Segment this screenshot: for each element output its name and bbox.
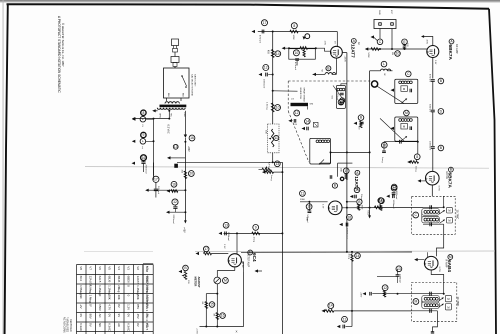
filter cap C16a xyxy=(171,181,177,187)
svg-text:0V: 0V xyxy=(108,314,112,318)
svg-text:8: 8 xyxy=(142,111,144,115)
cal box leads to transformer xyxy=(166,98,168,101)
tube label 12AT7 first xyxy=(351,39,356,44)
svg-text:PIN 2: PIN 2 xyxy=(145,295,149,303)
svg-text:2.1V: 2.1V xyxy=(223,244,225,249)
plate lead to bus x347 xyxy=(342,52,347,54)
RF tuned coil box 2 xyxy=(395,117,418,141)
svg-text:12AT7: 12AT7 xyxy=(350,44,355,58)
svg-text:13: 13 xyxy=(224,223,228,227)
triode V2b 12AT7 xyxy=(328,201,342,215)
IF2 bottom exit hook xyxy=(433,311,438,332)
resistor 3000 below xyxy=(360,121,362,128)
svg-text:0.75V: 0.75V xyxy=(438,186,440,192)
cathode bus divider x272.7 xyxy=(272,32,274,125)
antenna terminal strip xyxy=(374,20,396,29)
svg-text:0.75V: 0.75V xyxy=(438,267,440,273)
bottom resistor cluster 14 xyxy=(328,303,334,309)
tube voltage chart xyxy=(76,265,78,334)
svg-text:+: + xyxy=(142,117,144,121)
elbow down to tube grid xyxy=(336,32,338,47)
crease line upper xyxy=(85,167,489,169)
cap 470mmf below box xyxy=(295,58,299,60)
svg-text:GATE CONT.: GATE CONT. xyxy=(194,74,197,87)
wire crease level y252 xyxy=(241,251,412,253)
resistor 15K right xyxy=(378,198,384,204)
svg-text:13: 13 xyxy=(174,145,178,149)
svg-text:8: 8 xyxy=(416,155,418,159)
svg-text:12: 12 xyxy=(173,200,177,204)
svg-text:-2V: -2V xyxy=(79,304,83,309)
meter leads xyxy=(216,271,218,278)
svg-text:SPRAY SHIELD: SPRAY SHIELD xyxy=(303,88,306,103)
svg-text:0V: 0V xyxy=(127,314,131,318)
plate bus junction xyxy=(346,201,348,203)
svg-text:GND: GND xyxy=(378,10,380,15)
svg-text:+85V: +85V xyxy=(187,146,190,152)
grid wire second triode xyxy=(300,201,328,203)
svg-text:10.7MC: 10.7MC xyxy=(456,297,460,307)
svg-text:6.3AC: 6.3AC xyxy=(127,323,131,331)
svg-text:50K: 50K xyxy=(265,130,267,134)
IF2 top wire with cap xyxy=(412,293,444,295)
svg-text:2.2V: 2.2V xyxy=(322,204,324,209)
IF transformer 10.7MC dashed box 2 xyxy=(412,282,457,321)
svg-text:M: M xyxy=(448,209,450,213)
svg-text:0V: 0V xyxy=(79,314,83,318)
cap 50mmf with arrow xyxy=(354,187,360,193)
svg-text:12: 12 xyxy=(383,286,387,290)
svg-text:16: 16 xyxy=(347,215,351,219)
svg-text:+40V: +40V xyxy=(360,292,362,298)
border frame left xyxy=(5,4,8,334)
svg-text:2000mmf: 2000mmf xyxy=(172,215,174,225)
circle B left xyxy=(332,183,337,188)
IF1 primary coil xyxy=(422,209,440,216)
IF2 trimmer boxes xyxy=(445,295,451,301)
circle 20 1meg xyxy=(381,142,387,148)
IF1 slug arrows xyxy=(440,210,445,214)
svg-text:9: 9 xyxy=(142,133,144,137)
svg-text:V8: V8 xyxy=(79,266,83,270)
svg-text:10: 10 xyxy=(295,51,299,55)
svg-text:1000mmf: 1000mmf xyxy=(428,141,430,151)
svg-text:1meg: 1meg xyxy=(253,237,255,243)
svg-text:6.3AC: 6.3AC xyxy=(79,323,83,331)
svg-text:8: 8 xyxy=(293,24,295,28)
gang diagonal small osc xyxy=(333,86,345,103)
gang diagonal to RF coil 2 xyxy=(380,118,404,141)
svg-text:11: 11 xyxy=(274,136,278,140)
svg-text:470mmf: 470mmf xyxy=(294,62,296,70)
svg-text:METER AMP: METER AMP xyxy=(247,253,250,267)
svg-text:SYM: SYM xyxy=(145,266,149,273)
mechanical gang dash line xyxy=(288,80,371,82)
meter grid wire y233.4 xyxy=(224,232,283,234)
input circle C xyxy=(377,39,383,45)
crystal box xyxy=(313,122,318,127)
svg-text:LG: LG xyxy=(291,99,294,101)
grid resistor R8 xyxy=(291,23,297,29)
mixer bus x369.6 xyxy=(369,71,371,216)
svg-text:IF AMP: IF AMP xyxy=(444,259,448,268)
svg-text:6BE6: 6BE6 xyxy=(127,276,131,283)
stray ground arrow near 6C4 plate xyxy=(256,270,259,272)
terminal leads xyxy=(379,29,381,39)
cap C12 on bus lower xyxy=(172,199,178,205)
svg-text:18K: 18K xyxy=(306,217,308,221)
svg-text:6.3 VAC: 6.3 VAC xyxy=(166,125,169,134)
svg-text:20K: 20K xyxy=(117,295,121,300)
RF amp tube V1 6BK7A xyxy=(427,46,439,58)
svg-text:1 Meg: 1 Meg xyxy=(89,285,93,293)
bottom return wire xyxy=(200,326,244,328)
resistor 3meg to ground xyxy=(417,142,419,154)
svg-text:M: M xyxy=(405,111,408,115)
svg-text:+: + xyxy=(142,139,144,143)
IF2 secondary coil xyxy=(422,302,440,308)
capacitor C16 heater bypass xyxy=(141,155,147,161)
receiver tube V1b 6BK7A xyxy=(426,171,440,185)
filter cap C17 xyxy=(153,163,155,176)
IF1 coil link xyxy=(421,212,423,220)
wire y163 right of osc xyxy=(338,162,353,164)
svg-text:500mmf: 500mmf xyxy=(428,104,430,112)
circle 11 3300 xyxy=(300,191,306,197)
rcvr tube label xyxy=(449,167,454,172)
gang diagonal to RF coil 1 xyxy=(377,86,404,103)
crease line lower xyxy=(195,250,495,253)
IF2 circle M xyxy=(413,299,419,305)
bypass cap C12 divider xyxy=(263,65,269,71)
svg-text:20K: 20K xyxy=(108,295,112,300)
cap 2000mmf C13 xyxy=(396,266,402,272)
svg-text:2000mmf: 2000mmf xyxy=(263,79,265,89)
svg-text:M: M xyxy=(448,219,450,223)
svg-text:1meg: 1meg xyxy=(381,157,383,163)
rectifier diode on B+ lead xyxy=(184,111,186,135)
pilot lamp circle pair 2 xyxy=(141,132,146,137)
svg-text:TUBE: TUBE xyxy=(145,275,149,283)
svg-text:15: 15 xyxy=(210,303,214,307)
svg-text:20: 20 xyxy=(189,172,193,176)
heater bus vertical xyxy=(153,119,155,180)
resistor 3meg on x352 xyxy=(351,254,353,261)
svg-text:17: 17 xyxy=(204,247,208,251)
left margin scan line xyxy=(2,0,5,334)
cathode choke xyxy=(326,66,331,71)
meter M1 xyxy=(214,277,221,284)
circle 10 on grid wire xyxy=(395,51,401,57)
resistor 45K on divider xyxy=(271,50,274,58)
svg-text:V3: V3 xyxy=(127,266,131,270)
meter branch wire xyxy=(206,293,217,295)
svg-text:6.3AC: 6.3AC xyxy=(108,323,112,331)
wire y162.3 horizontal xyxy=(177,161,282,163)
svg-text:14: 14 xyxy=(329,304,333,308)
spray shield bar xyxy=(291,103,309,106)
svg-text:A PHOTOFACT STANDARD NOTATION: A PHOTOFACT STANDARD NOTATION SCHEMATIC xyxy=(57,16,61,93)
svg-text:RCVR: RCVR xyxy=(445,172,449,179)
svg-text:9: 9 xyxy=(255,226,257,230)
wire y91 to shield xyxy=(273,90,298,92)
svg-text:5000mmf: 5000mmf xyxy=(392,200,394,209)
svg-text:16: 16 xyxy=(190,136,194,140)
cap C16 below tube xyxy=(346,214,352,220)
B+ arrow +90V xyxy=(368,215,371,218)
main wire y152.4 horizontal xyxy=(331,151,370,153)
svg-text:20: 20 xyxy=(382,143,386,147)
svg-text:14: 14 xyxy=(305,119,309,123)
osc box right lead down xyxy=(330,152,332,163)
svg-text:BLK: BLK xyxy=(167,93,169,98)
svg-text:9V: 9V xyxy=(117,314,121,318)
rcvr cathode to IF box xyxy=(431,185,433,196)
svg-text:13: 13 xyxy=(275,162,279,166)
svg-text:GRN: GRN xyxy=(159,113,161,118)
svg-text:M: M xyxy=(414,300,417,304)
power transformer T1 secondary xyxy=(157,108,185,110)
svg-text:17: 17 xyxy=(344,169,348,173)
svg-text:12: 12 xyxy=(295,111,299,115)
svg-text:M: M xyxy=(447,297,449,301)
page top scan edge xyxy=(0,0,500,2)
circle M above box2 xyxy=(404,110,410,116)
oscillator coil big box xyxy=(310,138,331,164)
cathode resistor 1000 xyxy=(357,199,362,204)
svg-text:470mmf: 470mmf xyxy=(259,35,261,43)
IF2 coil link xyxy=(421,299,423,305)
wire to bus from C17 xyxy=(148,189,185,191)
svg-text:16: 16 xyxy=(142,156,146,160)
cap 5000mmf left xyxy=(391,185,397,191)
test arrow near R8 xyxy=(303,36,306,39)
svg-text:150mmf: 150mmf xyxy=(336,93,338,101)
grid box with R10 xyxy=(284,47,289,49)
svg-text:6BK7A: 6BK7A xyxy=(448,45,453,61)
svg-text:0V: 0V xyxy=(117,304,121,308)
6C4 label xyxy=(248,250,253,255)
svg-text:M: M xyxy=(449,255,452,259)
mixer circle 13 with cap xyxy=(338,99,344,105)
input cap C17a xyxy=(262,20,268,26)
riser to 6C4 plate xyxy=(243,272,245,327)
svg-text:14: 14 xyxy=(356,254,360,258)
svg-text:4.5V: 4.5V xyxy=(426,40,428,45)
svg-text:11: 11 xyxy=(392,186,396,190)
svg-text:L: L xyxy=(383,62,385,66)
svg-text:V5: V5 xyxy=(108,266,112,270)
gang rotor bold circle xyxy=(372,81,378,87)
wire y141.7 with cap xyxy=(384,141,418,143)
AFC pot below xyxy=(272,153,274,163)
svg-text:3meg: 3meg xyxy=(347,254,349,260)
6AB4 plate lead down xyxy=(431,270,444,282)
svg-text:470mmf: 470mmf xyxy=(428,74,430,82)
bottom cap cluster 11 xyxy=(342,316,348,322)
svg-text:RF AMP: RF AMP xyxy=(455,44,459,54)
grid resistor RE xyxy=(402,39,408,45)
svg-text:2.8V: 2.8V xyxy=(434,60,436,65)
IF1 trimmer boxes xyxy=(447,207,453,213)
svg-text:0V: 0V xyxy=(136,323,140,327)
IF1 bottom wire with cap xyxy=(423,223,444,225)
meter adjust pot xyxy=(183,265,189,271)
6C4 left resistor xyxy=(203,246,209,252)
svg-text:1.3meg: 1.3meg xyxy=(266,102,268,110)
grid return resistor 1meg y172 xyxy=(263,171,265,173)
IF2 primary coil xyxy=(422,296,440,302)
coupling caps chain on x433 bus xyxy=(431,79,435,81)
svg-text:X: X xyxy=(236,330,238,334)
svg-text:INSIDE FOIL: INSIDE FOIL xyxy=(299,88,301,101)
border frame top xyxy=(7,4,490,9)
power transformer T1 primary xyxy=(165,102,179,104)
bold junction near label xyxy=(340,177,343,180)
bus x352 lower xyxy=(351,259,353,327)
wire y212.2 to bus xyxy=(167,211,169,213)
cap 1000mmf xyxy=(391,184,397,190)
pilot lamp circle pair 1 xyxy=(141,110,146,115)
svg-text:150V: 150V xyxy=(98,304,102,311)
svg-text:PIN 1: PIN 1 xyxy=(145,285,149,293)
power transformer T1 core xyxy=(160,105,187,108)
circle C above box1 xyxy=(406,71,412,77)
long bus x282.4 xyxy=(281,162,283,334)
svg-text:+1.5V: +1.5V xyxy=(241,262,243,268)
svg-text:1.2V: 1.2V xyxy=(127,304,131,310)
cap below spray bar xyxy=(306,106,308,109)
svg-text:45V: 45V xyxy=(136,314,140,319)
plate coil L with circle xyxy=(381,61,387,67)
svg-text:12: 12 xyxy=(264,66,268,70)
svg-text:10: 10 xyxy=(396,52,400,56)
grid cap 50mmf top xyxy=(343,168,349,174)
wire grid line y31.5 xyxy=(258,31,338,33)
svg-text:NC NO CONN.: NC NO CONN. xyxy=(63,317,66,333)
svg-text:11: 11 xyxy=(343,317,347,321)
B+ bus end arrow +45V xyxy=(184,220,187,223)
main wire y207.5 to IF xyxy=(342,207,423,209)
RF tube label 6BK7A RF AMP xyxy=(449,39,454,44)
wire y276 xyxy=(377,275,398,277)
border frame right xyxy=(489,9,496,334)
volume pot dashed box xyxy=(268,124,280,153)
svg-text:2000mmf: 2000mmf xyxy=(399,274,401,283)
svg-text:13: 13 xyxy=(339,100,343,104)
svg-text:2000mmf: 2000mmf xyxy=(144,165,146,175)
svg-text:45K: 45K xyxy=(266,50,268,55)
gang vertical dash xyxy=(287,81,289,111)
6AB4 label xyxy=(448,255,453,260)
svg-text:+45V: +45V xyxy=(182,227,185,233)
resistor 6K xyxy=(205,302,207,309)
svg-text:1meg: 1meg xyxy=(270,175,272,181)
svg-text:6AL5: 6AL5 xyxy=(98,276,102,283)
resistor 9K xyxy=(216,313,218,320)
dark connector blob xyxy=(174,164,178,168)
RF cathode lead down xyxy=(432,58,434,79)
IF2 slug arrows xyxy=(439,298,444,302)
svg-text:AC: AC xyxy=(98,314,102,318)
svg-text:V6: V6 xyxy=(98,266,102,270)
svg-text:3300: 3300 xyxy=(300,199,306,201)
cal-oscillator box xyxy=(174,67,176,69)
arrow wire y157.9 xyxy=(168,157,171,159)
6C4 grid lead xyxy=(236,233,238,254)
B+ bus x346.9 xyxy=(346,53,348,252)
IF1 circle C xyxy=(413,212,419,218)
svg-text:80V: 80V xyxy=(89,314,93,319)
svg-text:METER: METER xyxy=(193,277,197,287)
svg-text:3meg: 3meg xyxy=(415,166,417,172)
svg-text:* MEASURED: * MEASURED xyxy=(66,317,69,332)
triode V2a 12AT7 xyxy=(331,46,343,58)
svg-text:1M: 1M xyxy=(391,52,393,55)
svg-text:PIN 4: PIN 4 xyxy=(145,314,149,322)
wire from box to tube grid xyxy=(316,48,331,51)
filter resistor on left bus xyxy=(184,171,186,179)
svg-text:500K: 500K xyxy=(367,53,369,59)
svg-text:GM: GM xyxy=(310,104,314,106)
svg-text:14: 14 xyxy=(355,188,359,192)
cap cluster B 600mmf xyxy=(358,115,364,121)
antenna plug stack xyxy=(172,39,179,46)
cap 2000mmf C13 meter xyxy=(223,222,229,228)
svg-text:6BJ6: 6BJ6 xyxy=(117,276,121,283)
IF transformer 10.7MC dashed box 1 xyxy=(412,196,456,234)
svg-text:1000mmf: 1000mmf xyxy=(395,191,397,200)
svg-text:8: 8 xyxy=(381,199,383,203)
RF plate lead with arrow xyxy=(424,37,433,46)
svg-text:+0.5V: +0.5V xyxy=(196,328,198,334)
svg-text:A.F.C.: A.F.C. xyxy=(268,162,271,168)
svg-text:10: 10 xyxy=(276,106,280,110)
svg-text:NC: NC xyxy=(79,295,83,299)
svg-text:AF: AF xyxy=(357,42,360,46)
svg-text:12AT7: 12AT7 xyxy=(136,276,140,285)
heater wire 6.3VAC xyxy=(135,118,169,120)
svg-text:+90V: +90V xyxy=(366,210,368,216)
svg-text:17: 17 xyxy=(263,21,267,25)
svg-text:PIN 3: PIN 3 xyxy=(145,304,149,312)
RF tuned coil box 1 xyxy=(395,79,418,103)
svg-text:V2: V2 xyxy=(136,266,140,270)
svg-text:16: 16 xyxy=(172,182,176,186)
svg-text:6BJ6: 6BJ6 xyxy=(108,276,112,283)
svg-text:85V: 85V xyxy=(136,304,140,309)
svg-text:6C4: 6C4 xyxy=(252,253,257,262)
svg-text:6C4: 6C4 xyxy=(79,276,83,282)
svg-text:10.7MC: 10.7MC xyxy=(456,210,460,220)
resistor 1meg meter xyxy=(253,225,259,231)
switch inside cal box xyxy=(182,76,187,86)
svg-text:16: 16 xyxy=(221,314,225,318)
osc grid cap C12 xyxy=(294,110,300,116)
IF1 secondary coil xyxy=(422,216,440,223)
svg-text:V7: V7 xyxy=(89,266,93,270)
svg-text:1.5V: 1.5V xyxy=(324,41,326,46)
svg-text:1 Meg: 1 Meg xyxy=(89,295,93,303)
svg-text:NC: NC xyxy=(98,323,102,327)
svg-text:2000mmf: 2000mmf xyxy=(227,232,229,241)
svg-text:10000mmf: 10000mmf xyxy=(346,228,348,239)
svg-text:BLK: BLK xyxy=(181,93,183,98)
svg-text:CAL ON AUTO NOISE: CAL ON AUTO NOISE xyxy=(191,74,194,97)
svg-text:100K: 100K xyxy=(292,35,294,41)
svg-text:RECTIFIER: RECTIFIER xyxy=(69,319,72,332)
svg-text:17: 17 xyxy=(154,177,158,181)
